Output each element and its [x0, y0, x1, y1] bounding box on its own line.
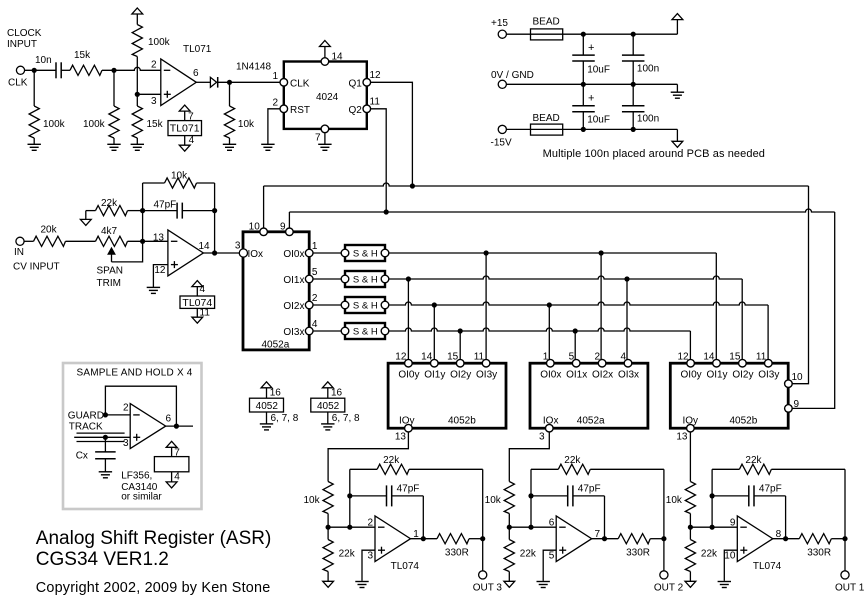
resistor 330R output (OUT 2)	[618, 534, 650, 544]
pin 14 OI1y of 4052b	[431, 359, 439, 367]
node junction diode/10k	[227, 80, 232, 85]
svg-text:S & H: S & H	[353, 275, 378, 286]
resistor 10k diode pulldown	[229, 82, 231, 106]
svg-text:6: 6	[193, 68, 199, 79]
svg-text:10n: 10n	[35, 55, 52, 66]
svg-text:22k: 22k	[383, 455, 400, 466]
guard track lines	[77, 432, 125, 434]
svg-text:0V / GND: 0V / GND	[491, 70, 534, 81]
svg-text:3: 3	[123, 438, 129, 449]
row 1 wire from S&H 1	[389, 252, 717, 254]
IC 4052b output mux box	[670, 363, 788, 428]
ground below 10k	[223, 143, 236, 145]
capacitor 100n -15 rail	[632, 84, 634, 106]
svg-text:4024: 4024	[316, 92, 339, 103]
pin 10 of 4052a	[260, 228, 268, 236]
svg-text:14: 14	[332, 52, 344, 63]
ground at op-amp + (OUT 1)	[718, 581, 731, 583]
IC 4052a input multiplexer box	[243, 232, 309, 350]
wire +15 through bead	[506, 33, 583, 35]
svg-text:TRIM: TRIM	[97, 278, 121, 289]
power symbol TL074 pins 4/11	[192, 281, 203, 287]
wire C1 to R 15k	[61, 69, 70, 71]
svg-text:10k: 10k	[171, 171, 188, 182]
svg-text:47pF: 47pF	[397, 484, 420, 495]
svg-text:TL071: TL071	[183, 44, 212, 55]
pin 14 OI1y of 4052b	[713, 359, 721, 367]
power symbol LF356 pins 7/4	[166, 441, 177, 447]
pin 1 CLK of 4024	[280, 79, 288, 87]
svg-text:10k: 10k	[485, 495, 502, 506]
svg-text:4052: 4052	[256, 401, 279, 412]
wire feedback down to output (OUT 1)	[844, 469, 846, 538]
ground for pin 7	[318, 143, 331, 145]
svg-text:100n: 100n	[637, 64, 659, 75]
svg-text:OUT 2: OUT 2	[654, 583, 684, 594]
power symbol 4052 #1 ground pins	[266, 412, 268, 424]
wire diode to 4024 CLK	[218, 81, 280, 83]
capacitor 10uF +15 rail	[582, 34, 584, 55]
terminal -15V supply	[498, 125, 506, 133]
wire op-amp out (OUT 3)	[411, 538, 438, 540]
pin 11 Q2 of 4024	[363, 105, 371, 113]
wire op-amp out to 4052 IOx	[203, 252, 239, 254]
node output junction (OUT 2)	[661, 536, 666, 541]
svg-text:9: 9	[280, 222, 286, 233]
svg-text:2: 2	[123, 402, 129, 413]
svg-text:CV INPUT: CV INPUT	[13, 262, 60, 273]
wire feedback riser (OUT 2)	[530, 469, 532, 527]
svg-text:S & H: S & H	[353, 249, 378, 260]
wire summing node to op-amp (OUT 1)	[690, 526, 737, 528]
svg-text:10uF: 10uF	[587, 114, 610, 125]
svg-text:10: 10	[792, 372, 804, 383]
wire row2 drop to chip2 pin 4	[626, 279, 628, 363]
svg-text:BEAD: BEAD	[533, 17, 560, 28]
svg-text:2: 2	[151, 60, 157, 71]
svg-text:11: 11	[756, 352, 767, 363]
svg-text:5: 5	[312, 267, 318, 278]
svg-text:2: 2	[368, 518, 374, 529]
svg-text:4: 4	[174, 472, 180, 483]
node output junction (OUT 3)	[480, 536, 485, 541]
wire mux IO pin to 10k (OUT 3)	[328, 432, 408, 482]
pin 4 OI3x of 4052a	[624, 359, 632, 367]
svg-text:6: 6	[549, 518, 555, 529]
op-amp TL074 output stage (OUT 1)	[737, 516, 773, 562]
svg-text:OI2y: OI2y	[450, 369, 471, 380]
wire +15 rail to arrow	[583, 33, 677, 35]
svg-text:14: 14	[703, 352, 715, 363]
trimmer 4k7 SPAN TRIM	[96, 236, 128, 246]
svg-text:4052a: 4052a	[262, 339, 290, 350]
terminal CV IN	[16, 237, 24, 245]
svg-text:13: 13	[153, 233, 165, 244]
wire Q2 to address line B	[371, 109, 387, 212]
pin 5 OI1x of 4052a	[572, 359, 580, 367]
pin 2 OI2x of 4052a	[305, 301, 313, 309]
wire pin + to ground (OUT 2)	[543, 550, 556, 581]
capacitor 47pF feedback	[143, 210, 178, 212]
wire row4 drop to chip1 pin 15	[459, 331, 461, 363]
svg-text:OI3y: OI3y	[758, 369, 779, 380]
wire summing node to op-amp (OUT 2)	[509, 526, 556, 528]
terminal 0V GND	[498, 80, 506, 88]
IC 4052b output mux box	[388, 363, 506, 428]
svg-text:13: 13	[395, 432, 407, 443]
svg-text:OI0y: OI0y	[398, 369, 419, 380]
wiper of 4k7 trimmer	[111, 253, 113, 262]
row 4 wire from S&H 4	[389, 328, 691, 331]
svg-text:16: 16	[270, 388, 282, 399]
svg-text:6: 6	[166, 414, 172, 425]
wire feedback to output	[214, 183, 216, 253]
wire to output terminal (OUT 1)	[844, 539, 846, 571]
S&H detail outer box	[63, 363, 202, 509]
wire op-amp out (OUT 1)	[773, 538, 800, 540]
svg-text:CLK: CLK	[290, 79, 310, 90]
S & H block 3	[345, 297, 385, 313]
svg-text:Q1: Q1	[349, 79, 363, 90]
diode 1N4148	[210, 77, 216, 87]
svg-text:or similar: or similar	[121, 492, 162, 503]
pin 12 OI0y of 4052b	[687, 359, 695, 367]
svg-text:TRACK: TRACK	[69, 421, 103, 432]
svg-text:3: 3	[539, 432, 545, 443]
svg-text:OUT 1: OUT 1	[835, 583, 865, 594]
terminal OUT 1	[841, 571, 849, 579]
power arrow +V rail	[672, 14, 683, 20]
svg-text:12: 12	[395, 352, 407, 363]
capacitor 47pF feedback (OUT 1)	[712, 495, 749, 497]
svg-text:4: 4	[312, 319, 318, 330]
pin 15 OI2y of 4052b	[456, 359, 464, 367]
address line A to chip3 pin 10	[264, 183, 809, 186]
resistor 22k to -V (OUT 1)	[689, 527, 691, 539]
resistor 100k divider upper	[132, 25, 142, 57]
ferrite bead on +15	[531, 29, 563, 40]
power arrow -V rail	[672, 141, 683, 147]
svg-text:INPUT: INPUT	[7, 39, 37, 50]
svg-text:9: 9	[794, 399, 800, 410]
svg-text:1: 1	[272, 71, 278, 82]
wire CLK to C1	[25, 69, 57, 71]
wire pin 3 input	[74, 436, 130, 438]
svg-text:11: 11	[200, 308, 211, 319]
svg-text:2: 2	[312, 293, 318, 304]
address line B to chip3 pin 9	[289, 209, 834, 212]
pin 7 ground of 4024	[324, 133, 326, 144]
resistor 22k offset	[80, 219, 91, 225]
pin 3 IOx of 4052a	[239, 249, 247, 257]
node junction at CLK	[32, 68, 37, 73]
wire line A to pin 10	[263, 186, 265, 228]
wire feedback riser (OUT 1)	[711, 469, 713, 527]
wire Q1 to address line A	[371, 82, 413, 186]
resistor 10k input (OUT 3)	[323, 482, 333, 514]
node junctions on -15 rail	[581, 127, 586, 132]
wire pin + to ground (OUT 1)	[724, 550, 737, 581]
svg-text:6, 7, 8: 6, 7, 8	[332, 413, 360, 424]
capacitor 10n input coupling	[55, 62, 57, 78]
op-amp TL074 output stage (OUT 3)	[375, 516, 411, 562]
ferrite bead on -15V	[531, 124, 563, 135]
op-amp LF356 sample buffer	[130, 404, 166, 449]
svg-text:1N4148: 1N4148	[236, 62, 271, 73]
wire 4052a OI0x to S&H 1	[313, 252, 341, 254]
pin 14 of 4024	[321, 58, 329, 66]
svg-text:IN: IN	[14, 247, 24, 258]
wire 47pF to output node (OUT 1)	[785, 496, 787, 539]
svg-text:11: 11	[370, 97, 381, 108]
node junctions on +15 rail	[581, 32, 586, 37]
svg-text:100k: 100k	[148, 37, 171, 48]
resistor 10k input (OUT 1)	[685, 482, 695, 514]
svg-text:OI2x: OI2x	[592, 369, 613, 380]
svg-text:TL071: TL071	[170, 123, 200, 135]
wire 15k to op-amp pin 2 with hop	[102, 67, 161, 70]
svg-text:10: 10	[724, 550, 736, 561]
svg-text:10k: 10k	[303, 495, 320, 506]
wire 4k7 to op-amp pin 13	[128, 240, 168, 242]
svg-text:22k: 22k	[701, 549, 718, 560]
svg-text:4052b: 4052b	[730, 415, 758, 426]
svg-text:4: 4	[200, 284, 206, 295]
svg-text:330R: 330R	[807, 548, 831, 559]
ground at pin 12	[147, 286, 160, 288]
pin 12 Q1 of 4024	[363, 79, 371, 87]
svg-text:OI1x: OI1x	[566, 369, 587, 380]
wire line B to pin 9	[288, 212, 290, 228]
wire -15V through bead	[506, 128, 583, 130]
svg-text:IOx: IOx	[248, 249, 264, 260]
wire 4052a OI3x to S&H 4	[313, 330, 341, 332]
op-amp U1 TL071 comparator	[161, 59, 197, 106]
svg-text:OI3x: OI3x	[283, 327, 304, 338]
svg-text:4052a: 4052a	[577, 415, 605, 426]
wire summing node to op-amp (OUT 3)	[328, 526, 375, 528]
S & H block 1	[345, 245, 385, 261]
svg-text:CGS34 VER1.2: CGS34 VER1.2	[36, 549, 169, 570]
svg-text:OI1y: OI1y	[424, 369, 445, 380]
resistor 22k to -V (OUT 2)	[508, 527, 510, 539]
wire mux IO pin to 10k (OUT 2)	[509, 432, 549, 482]
svg-text:4052: 4052	[317, 401, 340, 412]
terminal OUT 2	[660, 571, 668, 579]
node junction 10k/22k (OUT 3)	[326, 525, 331, 530]
svg-text:13: 13	[676, 432, 688, 443]
wire feedback down to output (OUT 2)	[663, 469, 665, 538]
resistor 330R output (OUT 1)	[799, 534, 831, 544]
row 3 drop to chip3 pin 11	[767, 305, 769, 363]
svg-text:4: 4	[620, 352, 626, 363]
wire pin 12 to ground	[153, 265, 168, 288]
svg-text:+: +	[588, 42, 594, 54]
svg-text:12: 12	[154, 265, 166, 276]
svg-text:3: 3	[151, 96, 157, 107]
svg-text:5: 5	[549, 550, 555, 561]
node junction 10k/22k (OUT 2)	[507, 525, 512, 530]
ground below second 100k	[107, 143, 120, 145]
power symbol TL071 pins 7/4	[179, 105, 190, 111]
node junction at op-amp pin 3	[135, 92, 140, 97]
row 1 drop to chip3 pin 14	[715, 253, 717, 363]
resistor 22k feedback (OUT 1)	[712, 468, 739, 470]
svg-text:4: 4	[189, 135, 195, 146]
pin 9 of 4052a	[286, 228, 294, 236]
op-amp U2 TL074 CV buffer	[168, 230, 204, 276]
svg-text:4052b: 4052b	[448, 415, 476, 426]
wire 4052a OI2x to S&H 3	[313, 304, 341, 306]
svg-text:Multiple 100n placed around PC: Multiple 100n placed around PCB as neede…	[543, 148, 765, 160]
power symbol 4052 #1 pin 16 top	[261, 382, 272, 388]
svg-text:RST: RST	[290, 105, 310, 116]
svg-text:BEAD: BEAD	[533, 113, 560, 124]
svg-text:TL074: TL074	[753, 561, 782, 572]
S & H block 2	[345, 271, 385, 287]
svg-text:14: 14	[199, 241, 211, 252]
resistor 22k feedback (OUT 2)	[531, 468, 558, 470]
svg-text:10k: 10k	[666, 495, 683, 506]
svg-text:11: 11	[474, 352, 485, 363]
svg-text:OI2x: OI2x	[283, 301, 304, 312]
svg-text:100n: 100n	[637, 113, 659, 124]
svg-text:10: 10	[249, 222, 261, 233]
svg-text:OI1x: OI1x	[283, 275, 304, 286]
node summing junction	[140, 239, 145, 244]
svg-text:22k: 22k	[745, 455, 762, 466]
node junction 10k/22k (OUT 1)	[688, 525, 693, 530]
power arrow -V (OUT 2)	[504, 581, 515, 587]
wire feedback down to output (OUT 3)	[482, 469, 484, 538]
svg-text:OI0y: OI0y	[681, 369, 702, 380]
IC U3 4024 counter box	[284, 62, 367, 129]
svg-text:9: 9	[730, 518, 736, 529]
svg-text:-15V: -15V	[491, 138, 512, 149]
ground symbol of supply	[671, 91, 684, 93]
svg-text:OI1y: OI1y	[706, 369, 727, 380]
svg-text:2: 2	[595, 352, 601, 363]
pin 12 OI0y of 4052b	[405, 359, 413, 367]
wire LF356 output	[165, 425, 193, 427]
wire to output terminal (OUT 3)	[482, 539, 484, 571]
svg-text:22k: 22k	[339, 549, 356, 560]
ground for RST	[261, 143, 274, 145]
resistor 15k to ground at pin 3	[136, 94, 138, 106]
feedback wire around LF356	[105, 386, 176, 426]
svg-text:4k7: 4k7	[101, 226, 118, 237]
resistor 100k bias divider lower-mid	[113, 70, 115, 106]
pin 11 OI3y of 4052b	[765, 359, 773, 367]
wire vertical feedback node	[142, 183, 144, 241]
node output junction (OUT 1)	[842, 536, 847, 541]
wire op-amp out to diode	[196, 81, 210, 83]
ground at op-amp + (OUT 3)	[355, 581, 368, 583]
svg-text:10uF: 10uF	[587, 65, 610, 76]
svg-text:330R: 330R	[445, 548, 469, 559]
svg-text:7: 7	[315, 133, 321, 144]
resistor 10k input (OUT 2)	[504, 482, 514, 514]
capacitor Cx hold cap	[104, 437, 106, 452]
power arrow -V (OUT 1)	[685, 581, 696, 587]
row 3 wire from S&H 3	[389, 302, 768, 305]
svg-text:22k: 22k	[520, 549, 537, 560]
svg-text:OI0x: OI0x	[283, 249, 304, 260]
svg-text:22k: 22k	[101, 198, 118, 209]
power symbol 4052 #2 pin 16 top	[322, 382, 333, 388]
svg-text:12: 12	[677, 352, 689, 363]
svg-text:CLOCK: CLOCK	[7, 28, 42, 39]
svg-text:330R: 330R	[626, 548, 650, 559]
svg-text:OI3x: OI3x	[618, 369, 639, 380]
pin 10 of chip3 right side	[785, 380, 793, 388]
resistor 22k to -V (OUT 3)	[327, 527, 329, 539]
wire 100k down through crossing to pin3 node	[136, 57, 138, 95]
svg-text:47pF: 47pF	[154, 200, 177, 211]
IC 4052a output mux box	[530, 363, 648, 428]
pin 9 of chip3 right side	[785, 405, 793, 413]
op-amp TL074 output stage (OUT 2)	[556, 516, 592, 562]
capacitor 47pF feedback (OUT 2)	[531, 495, 568, 497]
svg-text:15k: 15k	[147, 119, 164, 130]
svg-text:15: 15	[447, 352, 459, 363]
wire 4052a OI1x to S&H 2	[313, 278, 341, 280]
wire 47pF to output node (OUT 2)	[604, 496, 606, 539]
wire row4 drop to chip2 pin 5	[574, 331, 576, 363]
svg-text:Cx: Cx	[76, 451, 88, 462]
svg-text:OUT 3: OUT 3	[473, 583, 503, 594]
terminal CLK input	[16, 66, 24, 74]
capacitor 47pF feedback (OUT 3)	[350, 495, 387, 497]
pin 11 OI3y of 4052b	[482, 359, 490, 367]
ground at op-amp + (OUT 2)	[537, 581, 550, 583]
wire row2 drop to chip1 pin 12	[407, 279, 409, 363]
svg-text:TL074: TL074	[391, 561, 420, 572]
svg-text:S & H: S & H	[353, 301, 378, 312]
svg-text:CLK: CLK	[8, 77, 28, 88]
wire feedback riser (OUT 3)	[349, 469, 351, 527]
svg-text:SAMPLE AND HOLD X 4: SAMPLE AND HOLD X 4	[77, 368, 193, 379]
ground below 100k pulldown	[28, 143, 41, 145]
power +V arrow for 100k divider	[132, 8, 143, 14]
wire to op-amp pin 3	[137, 93, 161, 95]
wire row3 drop to chip2 pin 1	[548, 305, 550, 363]
power arrow -V (OUT 3)	[323, 581, 334, 587]
wire row1 drop to chip1 pin 11	[485, 253, 487, 363]
svg-text:S & H: S & H	[353, 327, 378, 338]
resistor 22k feedback (OUT 3)	[350, 468, 377, 470]
svg-text:6, 7, 8: 6, 7, 8	[271, 413, 299, 424]
svg-text:+: +	[588, 93, 594, 105]
node junction 15k/100k	[111, 68, 116, 73]
svg-text:3: 3	[235, 241, 241, 252]
wire pin + to ground (OUT 3)	[362, 550, 375, 581]
svg-text:1: 1	[312, 241, 318, 252]
svg-text:47pF: 47pF	[759, 484, 782, 495]
svg-text:10k: 10k	[238, 119, 255, 130]
S & H block 4	[345, 323, 385, 339]
pin 15 OI2y of 4052b	[739, 359, 747, 367]
svg-text:100k: 100k	[83, 119, 106, 130]
svg-text:12: 12	[370, 70, 382, 81]
svg-text:3: 3	[368, 550, 374, 561]
resistor 100k CLK pulldown	[33, 70, 35, 106]
wire IN to 20k	[24, 240, 34, 242]
svg-text:100k: 100k	[43, 119, 66, 130]
wire 47pF to output node (OUT 3)	[422, 496, 424, 539]
svg-text:OI0x: OI0x	[540, 369, 561, 380]
wire mux IO pin to 10k (OUT 1)	[689, 432, 691, 482]
